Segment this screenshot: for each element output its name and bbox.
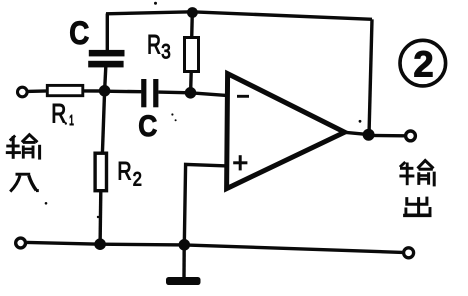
- wire node B to op-amp inverting input: [191, 93, 229, 96]
- svg-text:3: 3: [161, 41, 171, 64]
- text label chu (output) right char 2: [403, 197, 431, 216]
- wire input to R1: [27, 89, 48, 93]
- svg-text:2: 2: [413, 43, 433, 84]
- node E output junction: [363, 129, 375, 141]
- text label ru (input) left char 2: [10, 174, 39, 191]
- wire bottom rail: [27, 242, 402, 252]
- wire node E to output terminal: [369, 134, 405, 138]
- wire op-amp non-inverting input: [184, 164, 227, 244]
- node top junction: [187, 7, 198, 18]
- op-amp plus sign: [233, 155, 247, 170]
- wire node A to R2: [102, 91, 104, 154]
- op-amp minus sign: [237, 95, 249, 98]
- capacitor C2: [141, 79, 158, 107]
- svg-text:R: R: [117, 158, 131, 186]
- wire top rail: [106, 12, 372, 19]
- wire op-amp output to node E: [345, 132, 369, 134]
- wire C1 branch lower: [105, 67, 106, 91]
- text label shu (input) left char 1: [6, 135, 40, 160]
- ground: [166, 277, 201, 285]
- wire R3 lower lead: [189, 72, 193, 93]
- svg-text:C: C: [69, 15, 89, 51]
- wire feedback vertical: [369, 19, 372, 134]
- wire R3 upper lead: [190, 13, 194, 39]
- resistor R2: [95, 153, 106, 191]
- terminal output upper: [406, 131, 416, 141]
- terminal input lower: [16, 238, 26, 248]
- node B: [185, 87, 197, 99]
- text label shu (output) right char 1: [399, 161, 434, 187]
- svg-text:R: R: [51, 99, 66, 129]
- terminal output lower: [404, 248, 414, 258]
- op-amp U1: [227, 74, 345, 189]
- wire R1 to node A: [83, 89, 105, 92]
- resistor R1: [47, 85, 83, 95]
- svg-text:1: 1: [69, 112, 74, 129]
- wire C2 to node B: [158, 90, 190, 94]
- figure number circled 2: [400, 40, 446, 86]
- resistor R3: [185, 38, 199, 72]
- wire ground lead: [182, 245, 186, 279]
- node C ground junction: [179, 239, 191, 251]
- wire R2 to node D: [98, 191, 102, 245]
- wire node A to C2: [105, 89, 142, 93]
- svg-text:R: R: [147, 29, 161, 59]
- capacitor C1: [88, 50, 124, 68]
- node D: [94, 238, 106, 250]
- wire C1 branch upper: [106, 14, 109, 51]
- specks (scan noise): [45, 2, 362, 219]
- node A: [99, 85, 111, 97]
- svg-text:C: C: [138, 110, 157, 143]
- terminal input upper: [18, 87, 28, 97]
- svg-text:2: 2: [133, 170, 142, 191]
